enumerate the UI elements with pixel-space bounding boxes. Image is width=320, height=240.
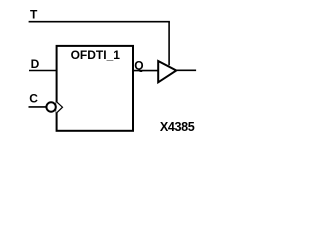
wire D to block [29, 70, 57, 72]
wire T vertical drop to inverter input [168, 22, 170, 66]
clock inversion bubble (pin C) [46, 102, 55, 111]
svg-text:OFDTI_1: OFDTI_1 [71, 48, 121, 62]
svg-text:X4385: X4385 [160, 120, 195, 134]
wire T horizontal [29, 21, 170, 23]
wire Q to inverter [133, 70, 158, 72]
flip-flop block U1 OFDTI_1 body [57, 46, 133, 131]
clock edge wedge (pin C) [56, 101, 62, 113]
svg-text:D: D [31, 57, 40, 71]
wire C to clock bubble [29, 106, 47, 108]
inverter/buffer triangle [158, 61, 176, 82]
svg-text:C: C [29, 92, 38, 106]
svg-text:T: T [30, 7, 38, 21]
wire output [176, 69, 196, 71]
